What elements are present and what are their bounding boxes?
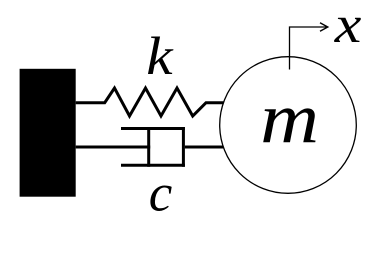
svg-text:k: k [146,26,174,86]
svg-text:m: m [260,79,319,159]
damper c : cylinder right wall [182,127,185,167]
arrowhead [320,23,328,32]
damper c : piston rod (left) [76,146,151,149]
mass m (circle) [220,57,357,194]
damper c : piston plate [147,127,150,167]
displacement arrow x [290,27,327,70]
damper c : cylinder top wall [121,127,185,130]
fixed wall [20,69,76,197]
svg-text:x: x [334,0,362,54]
damper c : cylinder bottom wall [121,164,185,167]
spring k (zigzag) [76,88,224,116]
damper c : rod (right) [185,146,224,149]
svg-text:c: c [149,164,173,222]
